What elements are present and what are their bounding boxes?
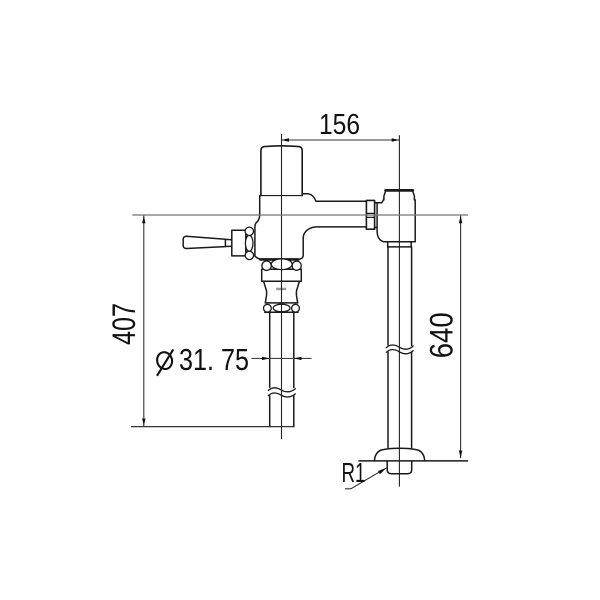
- handle coupling bottom ball: [245, 251, 253, 259]
- vacuum breaker taper section: [264, 281, 300, 303]
- inlet coupling upper left ball: [262, 261, 271, 270]
- bottom dome flange: [374, 448, 424, 461]
- inlet coupling lower outline: [265, 303, 298, 312]
- top reference line: [132, 214, 468, 216]
- arrow phi right (points left at pipe wall): [294, 357, 302, 360]
- dimension line 407: [143, 216, 145, 427]
- arrow 640 up: [459, 216, 462, 224]
- right pipe wall right: [411, 247, 413, 448]
- svg-text:407: 407: [106, 303, 142, 345]
- svg-text:640: 640: [424, 312, 460, 358]
- svg-text:R1: R1: [342, 457, 366, 488]
- center line of elbow and right pipe: [398, 135, 400, 486]
- bottom spud: [387, 461, 412, 474]
- lever handle paddle: [183, 236, 225, 248]
- elbow outlet collar: [388, 242, 412, 247]
- arrow R1 leader: [378, 468, 387, 475]
- right pipe wall left: [387, 247, 389, 448]
- elbow body: [375, 197, 416, 242]
- svg-text:31. 75: 31. 75: [179, 342, 249, 377]
- inlet pipe wall left: [269, 312, 271, 426]
- inlet coupling upper right ball: [292, 261, 301, 270]
- arrow 640 down: [459, 451, 462, 459]
- inlet coupling upper block: [262, 269, 302, 281]
- handle coupling vertical oval: [245, 235, 253, 251]
- outlet nut: [366, 200, 374, 229]
- handle coupling top ball: [245, 227, 253, 235]
- arrow phi left (points right at pipe wall): [262, 357, 270, 360]
- valve body upper cap: [261, 146, 302, 196]
- inlet coupling lower left ball: [264, 304, 272, 312]
- lever handle stem: [225, 239, 231, 246]
- dimension line 156: [281, 139, 399, 141]
- inlet coupling lower wide oval: [273, 304, 290, 312]
- elbow top cap: [384, 190, 415, 200]
- svg-text:156: 156: [319, 109, 360, 141]
- valve body bottom edge (thick): [260, 258, 298, 261]
- arrow 407 down: [142, 419, 145, 427]
- arrow 156 right: [392, 138, 400, 141]
- arrow 156 left: [281, 138, 289, 141]
- leader line R1: [345, 468, 387, 489]
- arrow 407 up: [142, 216, 145, 224]
- dimension symbol phi: [155, 349, 173, 375]
- bottom reference line 407: [131, 426, 294, 428]
- inlet pipe break line upper: [268, 388, 295, 392]
- taper label plate: [276, 288, 286, 291]
- valve body parting line: [261, 195, 302, 197]
- outlet nut facet lines: [366, 213, 374, 217]
- elbow top cap thick edge: [386, 189, 413, 192]
- floor connection line: [359, 460, 468, 462]
- inlet coupling upper wide oval: [271, 259, 292, 270]
- inlet coupling lower right ball: [292, 304, 300, 312]
- valve body lower right profile and outlet shoulder: [299, 194, 366, 259]
- dimension line phi31.75: [252, 357, 312, 359]
- right pipe break line upper: [386, 345, 413, 349]
- valve body lower left profile: [255, 196, 261, 260]
- inlet pipe break line lower: [268, 393, 295, 397]
- center line of valve and inlet pipe: [281, 134, 283, 439]
- dimension line 640: [460, 216, 462, 459]
- handle socket block: [232, 230, 246, 256]
- right pipe break line lower: [386, 350, 413, 354]
- inlet pipe wall right: [293, 312, 295, 426]
